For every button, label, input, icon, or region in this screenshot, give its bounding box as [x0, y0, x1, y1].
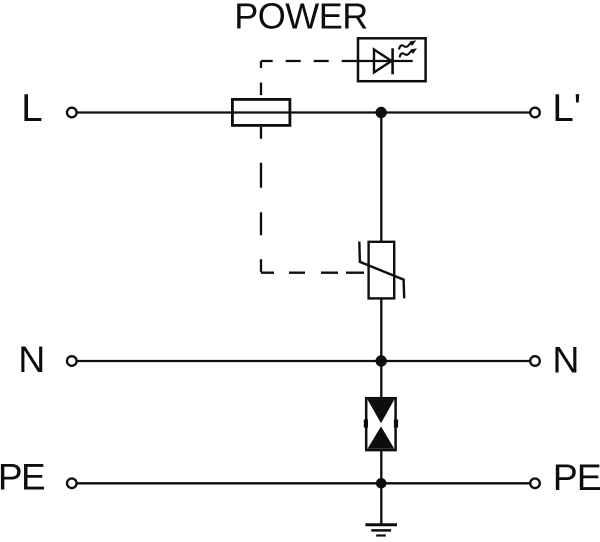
svg-text:L': L'	[552, 87, 581, 130]
svg-text:N: N	[552, 338, 579, 380]
svg-text:L: L	[21, 87, 42, 130]
svg-text:PE: PE	[553, 456, 600, 498]
svg-text:N: N	[18, 338, 45, 380]
svg-text:POWER: POWER	[234, 0, 368, 37]
svg-text:PE: PE	[0, 456, 45, 497]
